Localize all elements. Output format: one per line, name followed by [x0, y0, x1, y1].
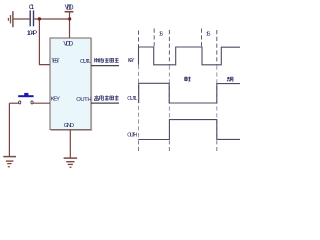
svg-text:C1: C1	[29, 4, 35, 11]
svg-text:104P: 104P	[27, 30, 38, 37]
svg-text:OUTL: OUTL	[80, 59, 91, 65]
svg-text:KEY: KEY	[128, 58, 135, 64]
svg-text:VDD: VDD	[65, 5, 74, 12]
svg-text:GND: GND	[64, 123, 74, 129]
svg-text:1S: 1S	[206, 32, 211, 38]
svg-text:VDD: VDD	[63, 41, 73, 48]
svg-text:1S: 1S	[159, 32, 164, 38]
svg-text:OUTH: OUTH	[76, 97, 91, 103]
svg-text:OUTH: OUTH	[127, 133, 137, 139]
svg-text:TEST: TEST	[51, 59, 60, 65]
svg-text:KEY: KEY	[51, 97, 61, 103]
svg-text:OUTL: OUTL	[127, 96, 137, 102]
